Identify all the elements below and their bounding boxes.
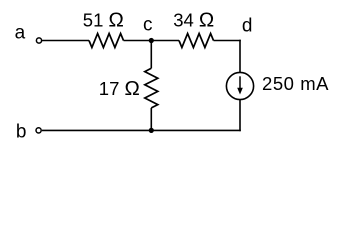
wire node c down to R3 — [150, 41, 152, 69]
node c junction dot — [149, 38, 154, 43]
wire node d down to current source — [239, 40, 241, 73]
current source I1 circle — [226, 72, 253, 99]
wire a to R1 — [42, 40, 89, 42]
resistor R3 17ohm vertical zigzag — [145, 68, 158, 108]
svg-text:250 mA: 250 mA — [262, 73, 329, 94]
wire current source down to bottom rail — [239, 100, 241, 132]
svg-text:17 Ω: 17 Ω — [99, 77, 140, 100]
wire R1 to R2 through node c — [124, 40, 180, 42]
svg-text:b: b — [16, 121, 27, 142]
svg-text:34 Ω: 34 Ω — [173, 9, 214, 32]
wire R2 to node d corner — [214, 40, 241, 42]
svg-text:c: c — [143, 14, 153, 35]
resistor R2 34ohm zigzag — [179, 34, 214, 48]
current source I1 arrow — [239, 76, 241, 89]
svg-text:d: d — [242, 15, 253, 36]
wire R3 to bottom rail — [150, 108, 152, 130]
svg-text:51 Ω: 51 Ω — [83, 9, 124, 32]
junction dot bottom of 17ohm branch — [149, 128, 154, 133]
svg-text:a: a — [15, 23, 26, 44]
node b terminal — [36, 128, 41, 133]
node a terminal — [36, 38, 41, 43]
wire bottom rail b to current source — [42, 129, 241, 131]
resistor R1 51ohm zigzag — [89, 34, 124, 48]
